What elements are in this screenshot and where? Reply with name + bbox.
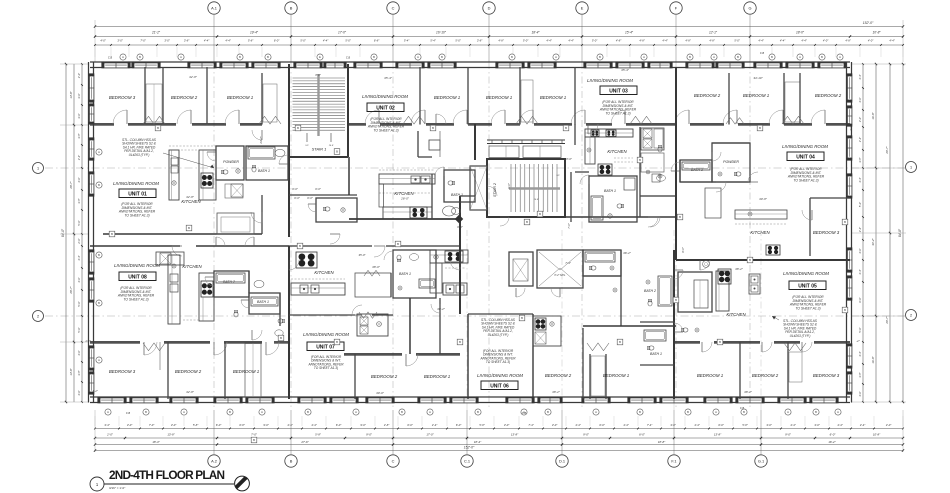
svg-text:D.1: D.1 [559,458,565,463]
svg-text:9′-0″: 9′-0″ [366,433,373,437]
svg-text:2′-0″: 2′-0″ [77,238,81,244]
svg-text:BEDROOM 2: BEDROOM 2 [175,369,202,374]
svg-text:LIVING/DINING ROOM: LIVING/DINING ROOM [783,271,829,276]
svg-text:38′-2″: 38′-2″ [552,390,561,394]
svg-text:5′-0″: 5′-0″ [858,202,862,207]
svg-text:BEDROOM 1: BEDROOM 1 [540,95,567,100]
svg-text:12′-1″: 12′-1″ [709,31,718,35]
svg-text:B: B [639,158,641,162]
svg-text:B: B [511,55,513,59]
svg-text:B: B [675,298,677,302]
svg-text:B: B [336,150,338,154]
svg-text:B: B [239,55,241,59]
unit01 bedroom partitions [144,67,146,125]
middle bath [583,250,621,276]
svg-text:TO SHEET A1.3): TO SHEET A1.3) [605,111,630,115]
svg-text:B: B [743,410,745,414]
svg-text:32′-8″: 32′-8″ [186,390,195,394]
grid bubble C.1 (bottom) [461,455,473,467]
svg-text:16′-8″: 16′-8″ [871,111,875,119]
svg-text:30′-0″: 30′-0″ [376,391,385,395]
svg-text:5′-8″: 5′-8″ [315,433,322,437]
unit 01 label box [119,189,156,198]
svg-text:A: A [799,55,801,59]
svg-text:UP: UP [305,145,309,147]
svg-text:B: B [188,226,190,230]
svg-text:D: D [488,5,491,10]
svg-text:A: A [839,55,841,59]
grid bubble E (top) [576,2,588,14]
svg-text:KITCHEN: KITCHEN [181,199,201,204]
unit 08 bedroom partitions [167,342,169,399]
svg-text:UNIT 03: UNIT 03 [609,88,628,94]
unit 02 corridor wall [349,218,461,220]
unit 06 upper kitchen counter [430,250,468,263]
svg-text:35′-4″: 35′-4″ [621,68,630,72]
svg-text:A: A [715,410,717,414]
svg-text:2ND-4TH FLOOR PLAN: 2ND-4TH FLOOR PLAN [109,468,225,482]
left detail dimension chain [81,64,83,402]
svg-text:4′-4″: 4′-4″ [77,155,81,160]
svg-text:UNIT 02: UNIT 02 [376,105,395,111]
svg-text:36′-2″: 36′-2″ [623,251,632,255]
corridor right segment [565,216,676,218]
svg-text:UP: UP [556,175,560,177]
svg-text:4′-4″: 4′-4″ [858,351,862,356]
svg-text:84′-0″: 84′-0″ [61,228,65,237]
svg-text:B: B [401,410,403,414]
svg-text:A: A [355,410,357,414]
svg-text:4′-0″: 4′-0″ [77,390,81,395]
svg-text:35′-0″: 35′-0″ [358,253,366,257]
svg-text:BEDROOM 3: BEDROOM 3 [109,95,136,100]
svg-text:16′-2″: 16′-2″ [828,440,836,444]
stair 2 top closets [487,139,565,141]
svg-text:B: B [336,340,338,344]
north arrow [235,476,250,491]
interior window tags [186,225,192,231]
svg-text:3′-8″: 3′-8″ [77,370,81,375]
title detail marker circle [90,477,104,491]
grid bubble 1 (right) [906,162,917,173]
svg-text:B: B [539,212,541,216]
unit 01 bath 1 [246,146,288,180]
svg-text:152′-0″: 152′-0″ [863,21,874,25]
svg-text:E: E [319,55,321,59]
top band bedroom doors (open into bedrooms) [126,110,128,124]
svg-text:18′-4″: 18′-4″ [474,440,482,444]
stair 1 enclosure [288,64,290,237]
svg-text:27′-6″: 27′-6″ [300,440,309,444]
svg-text:9′-0″: 9′-0″ [583,433,590,437]
svg-text:B: B [280,336,282,340]
unit 03 label box [600,86,637,95]
grid bubble 2 (right) [906,310,917,321]
svg-text:UNIT 01: UNIT 01 [128,191,147,197]
grid bubble G (top) [744,2,756,14]
svg-text:3/16″ = 1′-0″: 3/16″ = 1′-0″ [109,486,125,490]
svg-text:4′-4″: 4′-4″ [858,269,862,274]
unit 02 under-stair bath [316,198,357,222]
grid bubble G.1 (bottom) [755,455,767,467]
svg-text:35′-4″: 35′-4″ [384,76,393,80]
svg-text:B: B [290,5,293,10]
corridor walls upper [103,233,262,235]
svg-text:B: B [297,126,299,130]
svg-text:30′-8″: 30′-8″ [759,197,768,201]
svg-text:2: 2 [910,313,912,317]
svg-text:38′-2″: 38′-2″ [735,267,744,271]
grid bubble D.1 (bottom) [556,455,568,467]
svg-text:UL#263 (TYP.): UL#263 (TYP.) [129,153,150,157]
svg-text:F.1: F.1 [671,458,676,463]
svg-text:KITCHEN: KITCHEN [750,230,770,235]
svg-text:13′-8″: 13′-8″ [167,433,175,437]
svg-text:B: B [459,340,461,344]
svg-text:LIVING/DINING ROOM: LIVING/DINING ROOM [587,78,633,83]
svg-text:LIVING/DINING ROOM: LIVING/DINING ROOM [782,144,828,149]
unit 06 bedroom partitions [582,328,584,399]
unit 05 bedroom band top wall [674,341,700,343]
svg-text:18′-4″: 18′-4″ [531,31,540,35]
svg-text:1: 1 [37,166,39,170]
svg-text:BEDROOM 1: BEDROOM 1 [697,373,724,378]
grid bubble F (top) [670,2,682,14]
svg-text:B: B [290,458,293,463]
svg-text:4′-4″: 4′-4″ [858,74,862,79]
stair 2 treads [510,164,512,212]
unit 06 side walls [467,314,469,399]
svg-text:36′-2″: 36′-2″ [437,307,446,311]
bottom dimension row: detail dims [95,428,903,430]
svg-text:3′-8″: 3′-8″ [77,133,81,138]
unit 03 bath 1 [589,176,637,222]
svg-text:TO SHEET A1.3): TO SHEET A1.3) [314,366,338,370]
svg-text:34′-10″: 34′-10″ [753,76,763,80]
unit 08 bath 1 [249,293,280,314]
svg-text:B: B [98,183,100,187]
svg-text:C.B: C.B [108,56,113,60]
svg-text:LIVING/DINING ROOM: LIVING/DINING ROOM [362,94,408,99]
unit 06 lower counter [443,283,467,295]
svg-text:BATH 1: BATH 1 [258,169,270,173]
left overall dimension 84'-0" [65,64,67,402]
svg-text:BEDROOM 1: BEDROOM 1 [486,95,513,100]
svg-text:UL#263 (TYP.): UL#263 (TYP.) [790,334,811,338]
svg-text:21′-2″: 21′-2″ [151,31,161,35]
svg-text:19′-4″: 19′-4″ [250,31,259,35]
svg-text:4′-0″: 4′-0″ [77,73,81,78]
unit 07 label box [307,342,344,351]
svg-text:A.1: A.1 [211,5,217,10]
unit 03 hall doors [671,170,680,172]
top exterior wall with windows [90,61,850,63]
svg-text:STAIR 2: STAIR 2 [493,182,497,197]
svg-text:B: B [719,340,721,344]
svg-text:B: B [267,55,269,59]
svg-text:BEDROOM 2: BEDROOM 2 [545,373,572,378]
svg-text:BEDROOM 3: BEDROOM 3 [109,369,136,374]
svg-text:28′-7″: 28′-7″ [69,285,73,294]
top window tag circles [120,54,126,60]
svg-text:BEDROOM 2: BEDROOM 2 [371,374,398,379]
svg-text:6′-0″: 6′-0″ [858,297,862,302]
left secondary dimension [73,64,75,402]
svg-text:UNIT 06: UNIT 06 [490,383,509,389]
stair 2 enclosure [487,159,565,217]
svg-text:4′-4″: 4′-4″ [858,177,862,182]
svg-text:BEDROOM 3: BEDROOM 3 [813,230,840,235]
svg-text:TO SHEET A1.3): TO SHEET A1.3) [123,297,148,301]
grid bubble F.1 (bottom) [668,455,680,467]
svg-text:A: A [261,410,263,414]
svg-text:C.B: C.B [760,51,765,55]
svg-text:BATH 1: BATH 1 [604,189,616,193]
svg-text:B: B [619,340,621,344]
svg-text:G: G [748,5,751,10]
unit 04 interior walls [712,142,750,144]
unit 04 label box [787,152,824,161]
svg-text:LIVING/DINING ROOM: LIVING/DINING ROOM [113,181,159,186]
svg-text:POWDER: POWDER [223,160,239,164]
svg-text:BEDROOM 2: BEDROOM 2 [815,93,842,98]
top dimension row: bay widths [95,36,903,38]
grid bubble C (top) [387,2,399,14]
svg-text:3′-0″: 3′-0″ [77,93,81,98]
right overall dimension 84'-8" [902,64,904,402]
svg-text:26′-0″: 26′-0″ [400,197,410,201]
svg-text:A: A [180,55,182,59]
svg-text:B: B [397,242,399,246]
svg-text:B: B [145,410,147,414]
svg-text:13′-8″: 13′-8″ [714,433,722,437]
svg-text:38′-0″: 38′-0″ [372,265,381,269]
svg-text:LIVING/DINING ROOM: LIVING/DINING ROOM [477,373,523,378]
svg-text:A: A [429,410,431,414]
svg-text:C.B: C.B [346,56,351,60]
svg-text:LIVING/DINING ROOM: LIVING/DINING ROOM [303,332,349,337]
svg-text:BEDROOM 1: BEDROOM 1 [434,95,461,100]
svg-text:A: A [98,150,100,154]
svg-text:UL#263 (TYP.): UL#263 (TYP.) [488,333,509,337]
svg-text:A: A [713,55,715,59]
bedroom closet doors misc [726,118,744,124]
grid bubble D (top) [483,2,495,14]
svg-text:BEDROOM 3: BEDROOM 3 [813,373,840,378]
svg-text:B: B [98,301,100,305]
unit 08 bath 2 [214,271,249,297]
svg-text:B: B [477,410,479,414]
unit 02 bath 1 [444,170,475,202]
svg-text:A: A [837,410,839,414]
elevator shaft [470,166,487,210]
right tertiary dimension [889,64,891,402]
unit 04 bath 1 [680,160,712,182]
svg-text:BEDROOM 1: BEDROOM 1 [227,95,254,100]
unit 08 corridor laundry [156,252,184,265]
svg-text:KITCHEN: KITCHEN [394,191,414,196]
unit 02 label box [367,103,404,112]
svg-text:BEDROOM 1: BEDROOM 1 [603,373,630,378]
svg-text:B: B [639,410,641,414]
unit 05 label box [789,281,826,290]
svg-text:10′-8″: 10′-8″ [872,31,881,35]
svg-text:B: B [373,55,375,59]
svg-text:18′-8″: 18′-8″ [658,440,666,444]
unit 03 laundry column [639,127,641,196]
svg-text:TO SHEET A1.3): TO SHEET A1.3) [795,306,820,310]
svg-text:KITCHEN: KITCHEN [726,312,746,317]
svg-text:B: B [547,410,549,414]
svg-text:B: B [749,258,751,262]
svg-text:5′-0″: 5′-0″ [858,327,862,332]
bottom dimension row: segment widths [95,444,903,446]
stair 1 treads [293,77,346,79]
svg-text:C.B: C.B [522,411,527,415]
svg-text:BEDROOM 1: BEDROOM 1 [424,374,451,379]
svg-text:B: B [253,438,255,442]
svg-text:B: B [432,126,434,130]
svg-text:B: B [844,308,846,312]
svg-text:4′-0″: 4′-0″ [77,277,81,282]
overall bottom dimension 152'-0" [95,450,903,452]
under-stair walls [289,194,357,196]
unit 02 alcove [417,131,419,157]
demising wall unit 02 [474,124,476,160]
svg-text:A: A [787,410,789,414]
svg-text:A: A [122,55,124,59]
svg-text:KITCHEN: KITCHEN [607,149,627,154]
svg-text:29′-7″: 29′-7″ [885,315,889,324]
svg-text:4′-4″: 4′-4″ [77,255,81,260]
svg-text:7′-0″: 7′-0″ [251,433,258,437]
svg-text:5′-0″: 5′-0″ [77,301,81,306]
svg-text:14′-8″: 14′-8″ [69,367,73,375]
unit 01 powder room [216,146,244,180]
closet bifold doors bottom band [143,343,165,351]
svg-text:KITCHEN: KITCHEN [314,270,334,275]
svg-text:B: B [565,126,567,130]
unit 07 interior walls [288,246,290,399]
svg-text:KITCHEN: KITCHEN [182,264,202,269]
svg-text:10′-8″: 10′-8″ [873,433,881,437]
svg-text:152′-0″: 152′-0″ [464,446,475,450]
unit02-03 bedroom partitions [419,67,421,125]
unit04 bedroom partitions [675,67,677,127]
svg-text:4′-0″: 4′-0″ [858,248,862,253]
unit 01 hall closets [225,184,243,198]
svg-text:B: B [229,410,231,414]
svg-text:C: C [392,458,395,463]
svg-text:15 R: 15 R [534,199,539,201]
svg-text:BATH 1: BATH 1 [257,300,269,304]
svg-text:15′-4″: 15′-4″ [625,31,634,35]
svg-text:BEDROOM 2: BEDROOM 2 [694,93,721,98]
svg-text:BEDROOM 2: BEDROOM 2 [752,373,779,378]
bottom dimension row: bay widths [95,437,903,439]
svg-text:16′-10″: 16′-10″ [436,31,447,35]
svg-text:1: 1 [910,165,912,169]
unit 04 powder room [712,143,750,182]
unit 07 bedroom band [344,353,402,355]
corridor wall segment mid-right [459,196,461,246]
svg-text:A: A [107,410,109,414]
svg-text:B: B [111,232,113,236]
unit 06 kitchenette [533,316,561,346]
svg-text:18′-0″: 18′-0″ [796,31,805,35]
demising wall units 06-07 [459,246,461,314]
misc interior door arcs [330,233,340,235]
svg-text:G.1: G.1 [758,458,764,463]
svg-text:3′-8″: 3′-8″ [77,198,81,203]
svg-text:14′-8″: 14′-8″ [69,90,73,98]
svg-text:4′-0″: 4′-0″ [858,391,862,396]
svg-text:A: A [595,410,597,414]
svg-text:B: B [821,55,823,59]
unit 05 extra fixtures [681,328,688,332]
svg-text:4′-0″: 4′-0″ [77,350,81,355]
row grid line 2 [45,315,905,317]
svg-text:BATH 2: BATH 2 [644,289,656,293]
svg-text:84′-8″: 84′-8″ [898,228,902,237]
svg-text:32′-8″: 32′-8″ [186,195,195,199]
svg-text:B: B [526,220,528,224]
svg-text:B: B [759,126,761,130]
svg-text:B: B [441,55,443,59]
svg-text:UNIT 05: UNIT 05 [798,283,817,289]
svg-text:TO SHEET A1.3): TO SHEET A1.3) [793,178,818,182]
svg-text:UNIT 07: UNIT 07 [316,344,335,350]
svg-text:E: E [581,5,584,10]
svg-text:6′-0″: 6′-0″ [830,433,837,437]
right exterior wall with windows [846,62,848,403]
svg-text:B: B [599,55,601,59]
svg-text:B: B [307,410,309,414]
svg-text:B: B [737,55,739,59]
svg-text:3′-8″: 3′-8″ [858,157,862,162]
svg-text:38′-2″: 38′-2″ [744,390,753,394]
closet bifold doors top band [143,116,165,124]
svg-text:23′-7″: 23′-7″ [259,135,263,144]
svg-text:2′-0″: 2′-0″ [106,433,114,437]
unit 03 bath extra fixtures [658,145,662,152]
grid bubble 2 (left) [33,311,44,322]
svg-text:TO SHEET A1.3): TO SHEET A1.3) [124,213,149,217]
svg-text:A: A [555,55,557,59]
svg-text:3′-8″: 3′-8″ [858,372,862,377]
right secondary dimension [875,64,877,402]
svg-text:A.2: A.2 [211,458,217,463]
unit 08 bedroom band [90,341,140,343]
grid bubble B (bottom) [285,455,297,467]
grid bubble C (bottom) [387,455,399,467]
svg-text:BATH 1: BATH 1 [451,193,463,197]
unit 02 corridor closet [217,213,254,234]
svg-text:B: B [689,55,691,59]
svg-text:TO SHEET A1.3): TO SHEET A1.3) [373,128,398,132]
unit 06 label box [481,381,518,390]
svg-text:B: B [844,220,846,224]
svg-text:B: B [299,244,301,248]
svg-text:2: 2 [37,314,39,318]
svg-text:A: A [643,55,645,59]
svg-text:16′-8″: 16′-8″ [871,355,875,363]
svg-text:A: A [98,358,100,362]
unit 06 upper kitchen lower counter [430,263,442,293]
svg-text:UNIT 04: UNIT 04 [796,154,815,160]
left exterior wall with windows [88,62,90,403]
middle laundry closets [509,252,533,286]
